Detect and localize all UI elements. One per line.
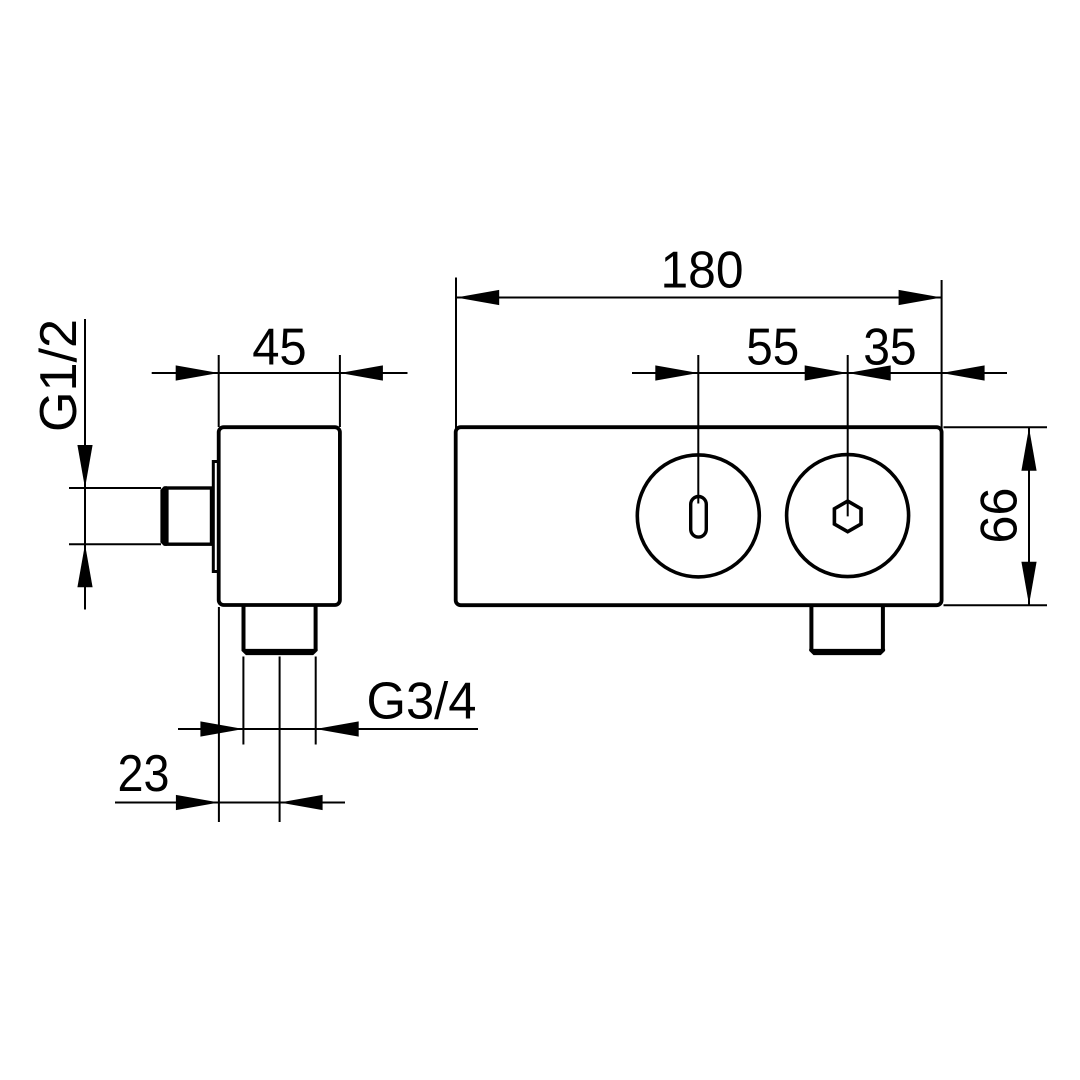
dimension G1/2: extension line bottom bbox=[69, 543, 161, 545]
svg-text:180: 180 bbox=[661, 242, 744, 300]
G3/4 outlet stub (side view) bbox=[244, 605, 316, 651]
dimension 180: extension line right (shared with 35) bbox=[941, 280, 943, 429]
dimension 66: extension line bottom bbox=[944, 604, 1048, 606]
dimension 45: left arrowhead (outside) bbox=[176, 365, 219, 380]
dimension G3/4: extension line right (stub right edge) bbox=[315, 657, 317, 745]
slot on left control bbox=[691, 497, 707, 538]
dimension 180: left arrowhead bbox=[456, 290, 499, 305]
dimension 66: top arrowhead bbox=[1021, 428, 1036, 471]
right control escutcheon circle bbox=[787, 455, 909, 577]
valve body (side view) bbox=[219, 427, 340, 605]
dimension 180: extension line left bbox=[455, 278, 457, 430]
left control escutcheon circle bbox=[637, 455, 759, 577]
dimension 45: extension line right bbox=[339, 355, 341, 427]
valve body (front view) bbox=[456, 427, 942, 605]
dimension 45: dimension line bbox=[152, 372, 408, 374]
dimension G1/2: extension line top bbox=[69, 487, 161, 489]
dimension 23: dimension line bbox=[115, 802, 345, 804]
hex centerline / extension bbox=[847, 355, 849, 516]
dimension 45: right arrowhead (outside) bbox=[340, 365, 383, 380]
dimension G1/2: lower arrowhead (outside, pointing up) bbox=[77, 544, 92, 587]
dimension 23: extension line right (stub centerline) bbox=[279, 657, 281, 823]
dimension 180: dimension line bbox=[456, 297, 941, 299]
hex socket on right control bbox=[834, 501, 861, 532]
dimension 23: left arrowhead (outside) bbox=[176, 795, 219, 810]
dimension 23: extension line left (from body) bbox=[218, 607, 220, 822]
dimension 55: left arrowhead (outside) bbox=[655, 365, 698, 380]
G1/2 nipple thread end bar bbox=[160, 486, 167, 546]
svg-text:45: 45 bbox=[252, 319, 307, 377]
dimension G3/4: right arrowhead (outside) bbox=[316, 721, 359, 736]
dimension G3/4: extension line left (stub left edge) bbox=[242, 657, 244, 745]
svg-text:55: 55 bbox=[746, 319, 799, 377]
G3/4 outlet stub (front view) bbox=[811, 605, 883, 650]
dimension 180: right arrowhead bbox=[899, 290, 942, 305]
dimension 35: right arrowhead (outside) bbox=[942, 365, 985, 380]
dimension G3/4: dimension line bbox=[178, 728, 478, 730]
dimension 45: extension line left bbox=[218, 355, 220, 427]
dimension 66: bottom arrowhead bbox=[1021, 562, 1036, 605]
dimension 23: right arrowhead (outside) bbox=[280, 795, 323, 810]
wall flange plate bbox=[213, 462, 219, 572]
slot centerline / extension bbox=[697, 355, 699, 504]
dimension 66: extension line top bbox=[944, 426, 1048, 428]
svg-text:35: 35 bbox=[863, 319, 917, 377]
svg-text:G1/2: G1/2 bbox=[30, 319, 88, 432]
dimension 55: right arrowhead (outside) bbox=[848, 365, 891, 380]
G3/4 outlet stub thread end bar (front view) bbox=[809, 649, 885, 655]
svg-text:66: 66 bbox=[971, 488, 1029, 544]
dimension G3/4: left arrowhead (outside) bbox=[200, 721, 243, 736]
dimension G1/2: upper arrowhead (outside, pointing down) bbox=[77, 445, 92, 488]
svg-text:23: 23 bbox=[118, 745, 170, 803]
dimension 55/35: dimension line bbox=[632, 372, 1007, 374]
dimension G1/2: dimension line bbox=[84, 319, 86, 610]
dimension 66: dimension line bbox=[1028, 428, 1030, 605]
dimension 35: left arrowhead (outside) bbox=[805, 365, 848, 380]
G1/2 nipple (side view, left) bbox=[167, 488, 212, 544]
svg-text:G3/4: G3/4 bbox=[367, 673, 477, 731]
G3/4 outlet stub thread end bar (side view) bbox=[242, 649, 318, 655]
